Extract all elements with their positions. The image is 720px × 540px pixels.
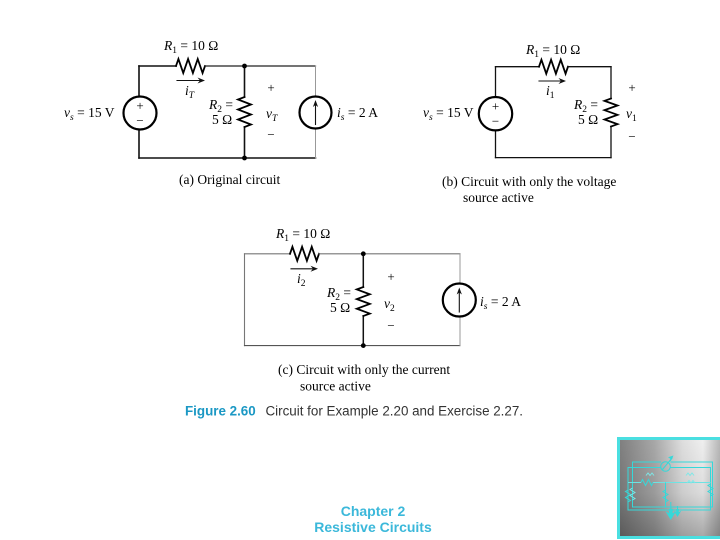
svg-text:Circuit for Example 2.20 and E: Circuit for Example 2.20 and Exercise 2.… xyxy=(266,404,524,419)
resistor R2 (b) xyxy=(605,99,618,127)
svg-text:i1: i1 xyxy=(546,83,555,101)
svg-text:+: + xyxy=(387,269,394,284)
node dot top (c) xyxy=(361,251,366,256)
resistor R2 (a) xyxy=(238,97,251,127)
current arrow iT (a) xyxy=(177,80,200,82)
wire: (a) bottom wire xyxy=(139,157,316,159)
wire: (c) top wire left segment xyxy=(245,253,291,255)
svg-text:source active: source active xyxy=(300,379,371,394)
logo squiggle label 1 xyxy=(646,473,654,476)
logo ground arrow big xyxy=(665,509,676,520)
current source is (c) xyxy=(443,284,476,317)
wire: (b) right wire segments xyxy=(610,67,612,158)
logo resistor horizontal on rail xyxy=(641,480,653,486)
logo circuit inner loop xyxy=(628,468,711,511)
svg-text:Resistive Circuits: Resistive Circuits xyxy=(314,519,432,535)
logo background panel xyxy=(619,439,720,538)
logo resistor vertical left xyxy=(626,490,631,502)
logo wire to ground xyxy=(671,502,678,512)
svg-text:i2: i2 xyxy=(297,271,306,289)
logo resistor vertical middle xyxy=(663,490,668,502)
logo source circle xyxy=(661,462,671,472)
logo middle rail wire xyxy=(628,482,711,484)
svg-text:v1: v1 xyxy=(626,106,637,124)
current source arrow (a) xyxy=(315,103,317,125)
svg-text:is = 2 A: is = 2 A xyxy=(480,294,521,312)
wire: (b) left wire xyxy=(495,67,497,158)
wire: (a) middle branch for R2 xyxy=(244,66,246,158)
wire: (a) left wire xyxy=(138,66,140,158)
resistor R2 (c) xyxy=(357,287,370,316)
svg-text:5 Ω: 5 Ω xyxy=(330,300,350,315)
svg-text:(a) Original circuit: (a) Original circuit xyxy=(179,172,280,187)
svg-text:is = 2 A: is = 2 A xyxy=(337,105,378,123)
current arrow i2 (c) xyxy=(291,268,313,270)
svg-text:iT: iT xyxy=(185,83,195,101)
wire: (c) bottom wire xyxy=(245,345,461,347)
svg-text:R1 = 10 Ω: R1 = 10 Ω xyxy=(163,38,218,56)
svg-text:−: − xyxy=(267,127,274,142)
svg-text:vs = 15 V: vs = 15 V xyxy=(423,105,474,123)
svg-text:(c) Circuit with only the curr: (c) Circuit with only the current xyxy=(278,362,450,377)
wire: (a) right branch for current source xyxy=(315,66,317,158)
svg-text:−: − xyxy=(492,114,499,129)
svg-text:R1 = 10 Ω: R1 = 10 Ω xyxy=(275,226,330,244)
svg-text:v2: v2 xyxy=(384,296,395,314)
svg-text:−: − xyxy=(628,129,635,144)
svg-text:Figure 2.60: Figure 2.60 xyxy=(185,404,256,419)
svg-text:source active: source active xyxy=(463,190,534,205)
wire: (c) top wire right segment xyxy=(319,253,460,255)
resistor R1 (c) xyxy=(290,247,319,261)
current source is (a) xyxy=(300,97,332,129)
svg-text:−: − xyxy=(387,318,394,333)
voltage source vs (b) xyxy=(479,97,512,130)
node dot top (a) xyxy=(242,64,247,69)
svg-text:5 Ω: 5 Ω xyxy=(212,112,232,127)
svg-text:+: + xyxy=(628,80,635,95)
svg-text:vs = 15 V: vs = 15 V xyxy=(64,105,115,123)
voltage source vs (a) xyxy=(124,97,157,130)
wire: (c) right wire xyxy=(459,254,461,346)
svg-text:+: + xyxy=(267,80,274,95)
resistor R1 (a) xyxy=(176,59,205,73)
wire: (a) top wire right segment xyxy=(205,65,316,67)
logo source diagonal arrow xyxy=(662,458,673,471)
wire: (b) top wire right segment xyxy=(568,66,611,68)
wire: (c) middle branch for R2 xyxy=(362,254,364,346)
logo resistor vertical left inner xyxy=(630,488,635,500)
svg-text:Chapter 2: Chapter 2 xyxy=(341,503,406,519)
svg-text:R1 = 10 Ω: R1 = 10 Ω xyxy=(525,42,580,60)
wire: (b) top wire left segment xyxy=(496,66,540,68)
logo ground arrow small xyxy=(674,509,682,517)
current arrow i1 (b) xyxy=(539,80,561,82)
wire: (a) top wire left segment xyxy=(139,65,176,67)
logo squiggle label 2 xyxy=(686,473,694,476)
svg-text:+: + xyxy=(492,99,499,114)
resistor R1 (b) xyxy=(539,60,568,74)
svg-text:+: + xyxy=(136,98,143,113)
svg-text:−: − xyxy=(136,113,143,128)
svg-text:vT: vT xyxy=(266,106,278,124)
svg-text:5 Ω: 5 Ω xyxy=(578,112,598,127)
node dot bottom (a) xyxy=(242,156,247,161)
wire: (b) bottom wire xyxy=(496,157,612,159)
logo squiggle label 3 xyxy=(687,481,695,484)
wire: (c) left wire xyxy=(244,254,246,346)
logo middle branch wire xyxy=(665,483,667,508)
node dot bottom (c) xyxy=(361,343,366,348)
current source arrow (c) xyxy=(458,291,460,313)
logo circuit outer loop xyxy=(633,462,713,507)
svg-text:(b) Circuit with only the volt: (b) Circuit with only the voltage xyxy=(442,174,616,189)
logo resistor vertical right xyxy=(708,484,713,496)
